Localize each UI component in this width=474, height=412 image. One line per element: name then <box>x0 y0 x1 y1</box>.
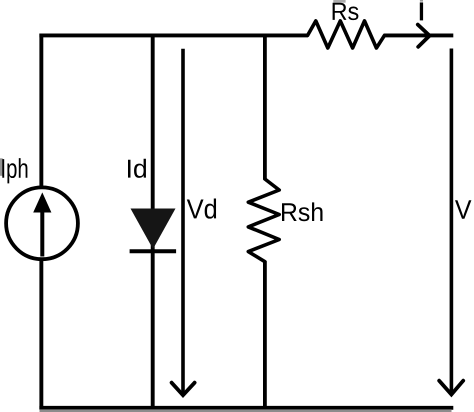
Vd arrow head <box>172 383 195 396</box>
resistor Rs <box>308 21 385 48</box>
gray clipped mark left edge <box>0 158 3 176</box>
gray clipped mark above Rs <box>333 0 345 3</box>
wire bottom horizontal <box>39 406 453 410</box>
gray band below bottom wire <box>40 409 452 412</box>
diode cathode bar <box>130 249 177 253</box>
label Vd <box>187 199 216 219</box>
label Iph <box>2 158 27 183</box>
wire Rsh branch bottom <box>263 262 267 410</box>
wire top horizontal left segment <box>39 33 307 37</box>
current source arrow shaft <box>40 211 44 257</box>
label Rsh <box>282 202 323 221</box>
V arrow head <box>439 381 463 395</box>
current source Iph circle <box>6 187 78 259</box>
label V <box>455 200 471 218</box>
diode D triangle <box>131 209 176 250</box>
current source arrow head <box>33 192 51 212</box>
Vd arrow line <box>181 49 185 394</box>
current arrow I head <box>418 25 430 47</box>
V arrow line right <box>450 49 454 395</box>
label Id <box>128 159 146 178</box>
wire left vertical <box>39 34 43 410</box>
wire top horizontal right segment <box>384 33 454 37</box>
label I <box>420 2 423 20</box>
resistor Rsh <box>248 179 279 262</box>
gray clipped mark above I <box>420 0 423 2</box>
label Rs <box>333 3 359 20</box>
wire Rsh branch top <box>263 34 267 180</box>
wire diode branch vertical <box>151 34 155 410</box>
